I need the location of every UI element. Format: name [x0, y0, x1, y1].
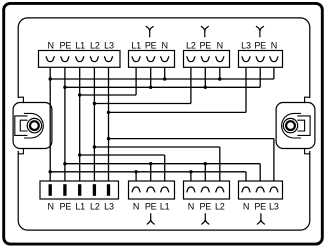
wire N drop to X8 — [245, 172, 247, 187]
wire L1 bottom bus — [80, 154, 165, 156]
label row X2 — [131, 40, 168, 50]
wire N drop to X7 — [190, 172, 192, 187]
enclosure outline — [15, 18, 314, 230]
node L2 tap bottom — [93, 145, 96, 148]
wire N riser to X2 — [164, 62, 166, 80]
node N junction — [218, 77, 221, 80]
label row X3 — [186, 40, 223, 50]
node L3 tap top — [107, 111, 110, 114]
wire L1 top bus — [80, 94, 136, 96]
svg-text:N: N — [162, 40, 168, 50]
node N tap top — [49, 77, 52, 80]
svg-text:L1: L1 — [75, 201, 85, 211]
svg-text:L2: L2 — [90, 201, 100, 211]
label row X4 — [241, 40, 277, 50]
node PE junction — [149, 86, 152, 89]
outgoing feeder symbol above X2 — [146, 26, 154, 37]
svg-text:L3: L3 — [104, 201, 114, 211]
terminal block X4 (top outgoing) — [239, 51, 283, 68]
svg-text:L3: L3 — [104, 40, 114, 50]
terminal block X6 (bottom outgoing) — [129, 181, 175, 199]
svg-text:L3: L3 — [241, 40, 251, 50]
terminal block X1 (N PE L1 L2 L3 top feed) — [39, 51, 121, 68]
svg-text:L2: L2 — [186, 40, 196, 50]
label row X1 — [48, 40, 114, 50]
wire L2 drop to X7 — [219, 147, 221, 187]
wire PE riser to X2 — [150, 62, 152, 88]
svg-text:N: N — [271, 40, 277, 50]
wire N drop to X6 — [135, 172, 137, 187]
node L1 tap top — [78, 93, 81, 96]
svg-text:L1: L1 — [160, 201, 170, 211]
node L2 tap top — [93, 102, 96, 105]
wire L2 feed column — [93, 62, 95, 185]
node PE junction — [204, 162, 207, 165]
outgoing feeder symbol above X4 — [256, 26, 264, 37]
wire L3 bottom bus — [109, 138, 274, 140]
node N tap bottom — [49, 170, 52, 173]
svg-text:N: N — [188, 201, 194, 211]
terminal block X8 (bottom outgoing) — [239, 181, 283, 199]
cable entry gland left — [13, 97, 52, 154]
label row X8 — [243, 201, 279, 211]
svg-text:PE: PE — [145, 40, 157, 50]
terminal block X5 (N PE L1 L2 L3 bottom incoming feed) — [40, 181, 119, 199]
svg-text:N: N — [48, 201, 54, 211]
terminal block X7 (bottom outgoing) — [184, 181, 230, 199]
wire PE drop to X6 — [150, 164, 152, 188]
node L3 tap bottom — [107, 137, 110, 140]
svg-text:L3: L3 — [269, 201, 279, 211]
node N junction — [134, 170, 137, 173]
wire N riser to X4 — [273, 62, 275, 80]
svg-text:PE: PE — [199, 40, 211, 50]
wire N riser to X3 — [219, 62, 221, 80]
wire L2 bottom bus — [94, 146, 219, 148]
outgoing feeder symbol below X8 — [257, 213, 265, 224]
svg-text:PE: PE — [199, 201, 211, 211]
outgoing feeder symbol above X3 — [201, 26, 209, 37]
wire L3 drop to X8 — [273, 139, 275, 188]
svg-text:PE: PE — [254, 40, 266, 50]
terminal block X2 (top outgoing) — [129, 51, 175, 68]
svg-text:L1: L1 — [75, 40, 85, 50]
wire PE feed column — [64, 62, 66, 185]
cable entry gland right — [276, 97, 315, 154]
outgoing feeder symbol below X6 — [147, 213, 155, 224]
wire PE drop to X8 — [259, 164, 261, 188]
wire N bottom bus — [50, 171, 246, 173]
label row X6 — [133, 201, 170, 211]
svg-text:PE: PE — [254, 201, 266, 211]
svg-text:N: N — [133, 201, 139, 211]
svg-text:PE: PE — [145, 201, 157, 211]
wire PE top bus — [65, 86, 260, 88]
svg-text:N: N — [48, 40, 54, 50]
wire L3 riser to X4 — [245, 62, 247, 113]
wire PE drop to X7 — [204, 164, 206, 188]
node N junction — [163, 77, 166, 80]
terminal block X3 (top outgoing) — [184, 51, 230, 68]
svg-text:L2: L2 — [215, 201, 225, 211]
wire L1 feed column — [79, 62, 81, 185]
svg-text:PE: PE — [60, 40, 72, 50]
label row X7 — [188, 201, 225, 211]
svg-text:L1: L1 — [131, 40, 141, 50]
outgoing feeder symbol below X7 — [201, 213, 209, 224]
wire L3 top bus — [109, 111, 247, 113]
wire L1 riser to X2 — [135, 62, 137, 96]
node PE junction — [204, 86, 207, 89]
svg-text:PE: PE — [60, 201, 72, 211]
wire PE riser to X3 — [204, 62, 206, 88]
svg-text:L2: L2 — [90, 40, 100, 50]
wire PE bottom bus — [65, 163, 260, 165]
label row X5 — [48, 201, 114, 211]
svg-text:N: N — [217, 40, 223, 50]
node PE tap top — [63, 86, 66, 89]
node PE junction — [149, 162, 152, 165]
wire L2 riser to X3 — [190, 62, 192, 104]
node L1 tap bottom — [78, 153, 81, 156]
node PE tap bottom — [63, 162, 66, 165]
svg-text:N: N — [243, 201, 249, 211]
wire L3 feed column — [108, 62, 110, 185]
wire L2 top bus — [94, 103, 190, 105]
wire L1 drop to X6 — [164, 155, 166, 187]
wire PE riser to X4 — [259, 62, 261, 88]
node N junction — [189, 170, 192, 173]
wire N top bus — [50, 78, 274, 80]
wire N feed column — [49, 62, 51, 185]
